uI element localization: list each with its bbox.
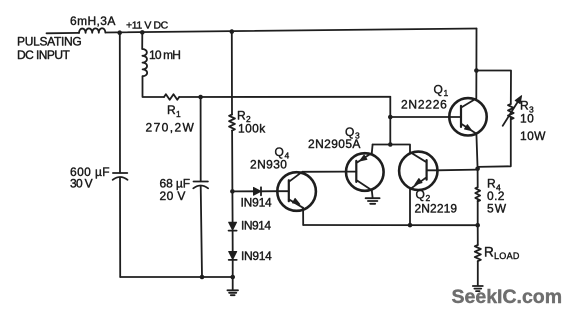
- svg-text:R: R: [520, 99, 529, 113]
- label R4: [487, 177, 501, 193]
- wire top rail to right corner: [105, 29, 476, 33]
- wire R1 to Q1-base corner: [179, 96, 390, 98]
- svg-text:PULSATING: PULSATING: [17, 35, 81, 49]
- transistor Q3 2N2905A: [346, 153, 384, 191]
- junction dot R1 wire: [198, 95, 203, 100]
- svg-text:10W: 10W: [520, 129, 546, 143]
- wire Q2 base to R4 node: [437, 169, 477, 172]
- wire Q1 emitter to R4: [476, 134, 477, 169]
- transistor Q4 2N930: [277, 172, 316, 211]
- ground Q3: [366, 198, 380, 204]
- wire R3 bottom: [478, 118, 511, 167]
- wire R2 rail from top: [231, 32, 233, 115]
- svg-text:20 V: 20 V: [160, 189, 186, 203]
- junction dot top B: [140, 30, 145, 35]
- svg-text:Q: Q: [416, 188, 426, 202]
- wire Q2 emitter down: [409, 189, 411, 225]
- svg-text:5 W: 5 W: [487, 202, 507, 216]
- wire diode node to D1: [232, 190, 253, 192]
- wire bracket to R1 wire: [389, 97, 391, 145]
- junction dot R4 top: [475, 167, 480, 172]
- label Q2: [416, 188, 431, 204]
- transistor Q2 2N2219: [399, 152, 437, 190]
- label Q1: [434, 83, 449, 99]
- svg-text:1: 1: [444, 88, 449, 98]
- junction dot top C: [230, 29, 235, 34]
- wire down to Q1 collector: [475, 71, 477, 99]
- wire 68uF rail top: [200, 97, 202, 181]
- svg-text:100k: 100k: [238, 121, 266, 135]
- wire D1 to Q4 base: [261, 190, 277, 192]
- label R2: [237, 108, 251, 124]
- resistor R4 0.2 5W: [475, 169, 480, 225]
- resistor R2 100k: [229, 115, 235, 131]
- svg-text:6mH,3A: 6mH,3A: [70, 14, 116, 28]
- junction dot bottom main: [230, 275, 235, 280]
- label R3: [520, 99, 534, 115]
- wire emitter bus: [303, 224, 478, 226]
- label R1: [167, 103, 181, 119]
- wire L2 bottom to R1: [143, 76, 165, 97]
- wire 68uF rail bottom: [201, 186, 202, 277]
- svg-text:R: R: [484, 245, 494, 260]
- svg-text:270,2W: 270,2W: [146, 120, 196, 134]
- capacitor C2 68uF 20V: [193, 182, 208, 189]
- wire input lead: [47, 32, 80, 34]
- diode D1 1N914 (horizontal): [254, 187, 262, 195]
- svg-text:R: R: [237, 108, 246, 122]
- junction dot Q1 base tee: [388, 115, 393, 120]
- wire left rail down to C1: [119, 33, 121, 173]
- svg-text:IN914: IN914: [241, 219, 271, 233]
- svg-text:2N930: 2N930: [250, 158, 287, 172]
- wire collector bracket Q3/Q2: [373, 145, 410, 154]
- svg-text:R: R: [167, 103, 176, 117]
- svg-text:+11 V DC: +11 V DC: [126, 19, 169, 31]
- svg-text:10 mH: 10 mH: [149, 48, 180, 62]
- diode D3 1N914 (vertical): [229, 252, 237, 260]
- inductor L1 6mH,3A: [79, 28, 105, 33]
- transistor Q1 2N2226: [449, 98, 486, 135]
- wire Q1 base: [390, 116, 449, 118]
- wire left rail below C1 to bottom: [119, 178, 121, 277]
- wire D2 to D3: [232, 231, 234, 252]
- junction dot R3 tee: [474, 68, 479, 73]
- wire Q3 collector to ground: [371, 190, 374, 197]
- resistor R1 270,2W: [164, 94, 179, 100]
- wire Q4 collector to Q3 base: [302, 171, 346, 173]
- junction dot bracket: [388, 142, 393, 147]
- svg-text:1: 1: [176, 109, 181, 119]
- svg-text:IN914: IN914: [241, 196, 273, 210]
- svg-text:30 V: 30 V: [70, 177, 93, 191]
- wire Q3 emitter to bracket: [371, 145, 374, 154]
- junction dot R4 bottom: [475, 223, 480, 228]
- resistor RLOAD: [475, 225, 481, 285]
- junction dot top A: [117, 30, 122, 35]
- svg-text:DC INPUT: DC INPUT: [17, 48, 70, 62]
- wire diode node to D2: [231, 191, 233, 222]
- label Q3: [345, 125, 360, 141]
- svg-text:10: 10: [520, 112, 534, 126]
- label RLOAD: [484, 245, 520, 262]
- diode D2 1N914 (vertical): [229, 222, 237, 230]
- wire Q4 emitter down: [302, 208, 304, 225]
- junction dot diode node: [230, 189, 235, 194]
- wire bottom ground bus: [120, 276, 233, 278]
- wire D3 to bottom bus: [232, 260, 234, 277]
- capacitor C1 600uF 30V: [113, 173, 128, 180]
- svg-text:SeekIC.com: SeekIC.com: [452, 286, 563, 308]
- svg-text:LOAD: LOAD: [494, 251, 520, 261]
- wire top rail right corner down: [475, 29, 477, 71]
- svg-text:2N2905A: 2N2905A: [308, 137, 361, 151]
- inductor L2 10mH: [142, 49, 147, 76]
- wire 10mH rail top: [141, 32, 143, 49]
- wire R3 branch top: [476, 71, 511, 105]
- svg-text:2N2226: 2N2226: [401, 98, 448, 112]
- ground RLOAD: [473, 286, 483, 291]
- junction dot bottom 68uF: [200, 275, 205, 280]
- ground main: [227, 277, 238, 295]
- svg-text:IN914: IN914: [241, 249, 272, 263]
- label Q4: [275, 145, 290, 161]
- svg-text:2N2219: 2N2219: [415, 202, 458, 216]
- wire R2 to diode node: [231, 131, 233, 192]
- junction dot Q2 emitter: [408, 223, 413, 228]
- svg-text:Q: Q: [434, 83, 444, 97]
- resistor R3 (variable) 10 10W: [503, 96, 522, 126]
